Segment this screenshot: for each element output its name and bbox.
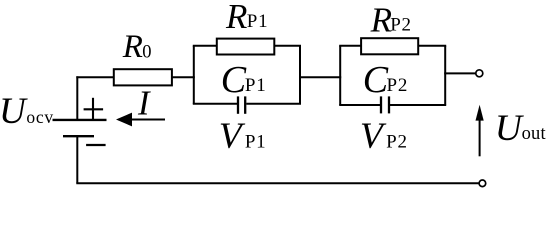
svg-text:CP2: CP2 — [363, 59, 408, 101]
wire top rail to R0 — [76, 76, 114, 78]
current arrow I shaft — [118, 119, 165, 121]
svg-text:RP2: RP2 — [370, 1, 412, 40]
battery minus sign — [86, 144, 106, 146]
battery UOCV negative plate — [63, 135, 94, 137]
wire battery bottom lead — [76, 136, 78, 183]
battery UOCV positive plate — [53, 119, 107, 121]
svg-text:I: I — [137, 84, 151, 122]
svg-text:Uocv: Uocv — [0, 91, 54, 132]
output arrow Uout shaft — [479, 119, 481, 156]
wire RC2 bottom-left — [339, 104, 380, 106]
wire R0 to node A — [172, 76, 195, 78]
wire RC2 right vertical — [444, 46, 446, 105]
terminal bottom (open circle) — [479, 180, 486, 187]
svg-text:Uout: Uout — [495, 108, 547, 149]
svg-text:VP1: VP1 — [219, 116, 267, 157]
resistor RP1 — [217, 39, 274, 55]
terminal top (open circle) — [476, 70, 483, 77]
wire RC1 bottom-right — [246, 103, 301, 105]
resistor RP2 — [361, 38, 418, 54]
battery plus sign — [84, 98, 104, 119]
capacitor CP2 — [381, 96, 389, 113]
wire bottom rail — [76, 182, 479, 184]
wire RC2 bottom-right — [390, 104, 446, 106]
capacitor CP1 — [238, 96, 245, 113]
wire RC2 top-left — [339, 45, 361, 47]
svg-text:CP1: CP1 — [221, 59, 267, 101]
svg-text:RP1: RP1 — [225, 0, 268, 36]
wire node B connector — [299, 76, 341, 78]
current arrow I head — [116, 113, 132, 127]
output arrow Uout head — [476, 105, 484, 121]
svg-text:VP2: VP2 — [360, 116, 408, 157]
resistor R0 — [114, 69, 172, 85]
wire RC2 top-right — [418, 45, 446, 47]
wire battery top lead — [76, 76, 78, 120]
wire RC1 right vertical — [299, 46, 301, 104]
wire RC1 bottom-left — [193, 103, 237, 105]
wire output top — [444, 72, 476, 74]
wire RC1 top-left — [193, 45, 217, 47]
wire RC2 left vertical — [339, 46, 341, 105]
svg-text:R0: R0 — [122, 29, 152, 65]
wire RC1 top-right — [274, 45, 301, 47]
node A: RC1 left vertical wire — [193, 46, 195, 104]
